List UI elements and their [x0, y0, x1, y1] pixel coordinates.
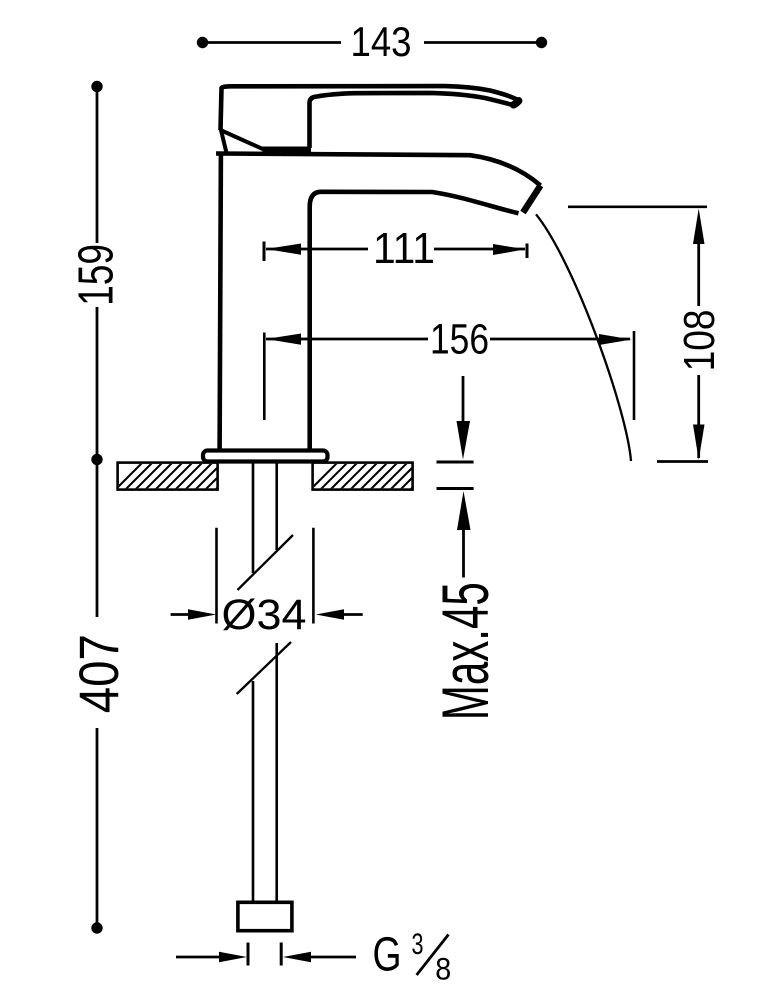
dimension Max.45: lower arrowhead (up)	[457, 491, 471, 530]
faucet handle lever top outline	[221, 86, 519, 130]
svg-text:156: 156	[430, 315, 489, 363]
dimension 111: left extension tick	[263, 242, 266, 262]
pipe break slash lower	[237, 642, 291, 694]
dimension 156: right arrowhead	[599, 334, 632, 345]
supply pipe right wall lower segment	[275, 643, 278, 902]
countertop left slab outline	[118, 463, 218, 490]
dimension G3/8: left tick	[247, 943, 250, 966]
dimension 159 left: dot top	[91, 81, 102, 92]
dimension 143 top: line left segment	[206, 41, 341, 44]
dimension 111: right arrowhead	[493, 244, 526, 255]
dimension 159 left: line lower segment	[96, 307, 99, 455]
dimension Ø34: left line	[171, 613, 192, 616]
dimension 407 left: line upper segment	[96, 463, 99, 617]
faucet handle dark gap bar	[263, 147, 312, 157]
faucet spout outlet face	[523, 186, 541, 213]
svg-text:108: 108	[675, 309, 724, 371]
dimension G3/8: fraction slash	[417, 935, 449, 976]
faucet handle lever tip	[514, 101, 519, 105]
water stream curve	[536, 214, 631, 461]
svg-text:G: G	[373, 929, 402, 982]
svg-text:143: 143	[351, 18, 412, 65]
dimension 111: line left segment	[266, 248, 368, 251]
faucet body / spout top edge	[216, 154, 541, 186]
svg-text:Ø34: Ø34	[222, 591, 307, 639]
dimension Ø34: left extension line	[215, 528, 218, 624]
dimension 111: right extension tick	[526, 244, 529, 259]
pipe break slash upper	[238, 535, 294, 590]
svg-text:111: 111	[373, 224, 435, 273]
dimension G3/8: right tick	[280, 943, 283, 966]
dimension 156: line left segment	[266, 338, 428, 341]
dimension 156: left arrowhead	[266, 334, 301, 345]
dimension 108: bottom arrowhead (down)	[693, 425, 705, 461]
dimension 407 left: shared dot middle	[91, 454, 102, 465]
dimension 159 left: line upper segment	[96, 89, 99, 243]
dimension 407 left: dot bottom	[91, 922, 102, 933]
supply pipe left wall upper segment	[252, 462, 255, 574]
dimension G3/8: right line	[308, 956, 356, 959]
dimension 108: bottom extension line	[657, 460, 708, 463]
dimension Max.45: upper arrow line	[462, 376, 465, 430]
dimension 108: top extension line	[568, 206, 707, 209]
countertop right slab outline	[313, 463, 413, 490]
dimension G3/8: left arrowhead (right)	[219, 952, 247, 962]
dimension 156: line right segment	[490, 338, 630, 341]
dimension Max.45: lower arrow line	[462, 526, 465, 578]
dimension 156: left extension line	[263, 333, 266, 421]
dimension 111: line right segment	[434, 248, 525, 251]
dimension Ø34: right line	[340, 613, 363, 616]
pipe end fitting	[238, 902, 292, 930]
dimension 143 top: line right segment	[424, 41, 538, 44]
dimension Max.45: upper tick	[437, 461, 474, 464]
dimension 143 top: dot left	[197, 37, 208, 48]
svg-text:Max.45: Max.45	[428, 582, 502, 720]
dimension G3/8: left line	[176, 956, 222, 959]
svg-text:159: 159	[69, 244, 124, 306]
dimension Max.45: lower tick	[437, 487, 474, 490]
supply pipe left wall lower segment	[252, 681, 255, 902]
dimension Ø34: right arrowhead (left)	[316, 609, 344, 620]
dimension Ø34: left arrowhead (right)	[188, 609, 216, 620]
dimension 143 top: dot right	[536, 37, 547, 48]
dimension 111: left arrowhead	[266, 244, 301, 255]
faucet spout underside and body right edge	[310, 192, 519, 451]
faucet handle lever bottom edge	[310, 93, 514, 148]
countertop right slab hatching	[295, 455, 455, 505]
supply pipe right wall upper segment	[275, 462, 278, 551]
faucet body left edge	[220, 153, 221, 452]
dimension 108: top arrowhead (up)	[693, 209, 705, 245]
dimension Max.45: upper arrowhead (down)	[457, 421, 471, 460]
svg-text:8: 8	[435, 950, 451, 986]
svg-text:407: 407	[67, 634, 130, 713]
faucet handle cap bottom-left step	[221, 128, 227, 153]
dimension 108: line lower segment	[697, 375, 700, 458]
dimension Ø34: right extension line	[312, 528, 315, 624]
dimension 407 left: line lower segment	[96, 728, 99, 924]
countertop left slab hatching	[100, 455, 260, 505]
svg-text:3: 3	[412, 928, 424, 961]
faucet handle cap bottom diagonal	[222, 131, 267, 151]
dimension 108: line upper segment	[697, 240, 700, 306]
dimension G3/8: right arrowhead (left)	[283, 952, 311, 962]
dimension 156: right extension line	[633, 331, 636, 420]
faucet base flange	[203, 451, 328, 462]
